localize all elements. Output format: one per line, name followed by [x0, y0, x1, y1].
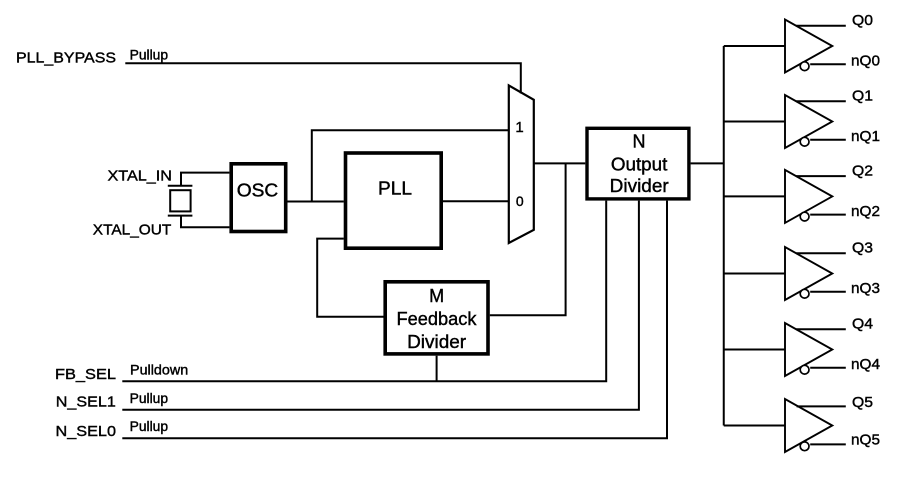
mux MUX1 [509, 85, 534, 243]
svg-text:Pullup: Pullup [130, 419, 169, 434]
svg-text:XTAL_OUT: XTAL_OUT [93, 221, 172, 238]
svg-text:N_SEL1: N_SEL1 [56, 394, 116, 411]
wire XTAL_OUT to crystal and OSC [181, 216, 229, 228]
wire PLL_BYPASS to mux select [125, 63, 521, 93]
inversion bubble nQ1 [800, 137, 809, 146]
op block M Feedback Divider [385, 282, 488, 354]
svg-text:Pulldown: Pulldown [130, 363, 188, 378]
wire mux output to N divider [534, 162, 586, 164]
wire N_SEL1 to N divider [122, 201, 639, 410]
buffer U6 [785, 323, 832, 376]
wire N_SEL0 to N divider [122, 201, 667, 439]
op block PLL U1 [346, 153, 442, 248]
svg-text:nQ5: nQ5 [851, 431, 880, 448]
svg-text:OSC: OSC [237, 181, 279, 201]
wire FB_SEL to N divider [122, 201, 606, 382]
svg-text:nQ4: nQ4 [851, 356, 880, 373]
wire N divider output to bus [691, 162, 724, 164]
svg-text:M: M [429, 286, 444, 306]
wire nQ1 output [810, 139, 846, 141]
wire feedback tap to M divider [490, 163, 566, 315]
wire output distribution bus [723, 46, 725, 426]
inversion bubble nQ4 [800, 365, 809, 374]
svg-text:Pullup: Pullup [130, 48, 169, 63]
svg-text:Q4: Q4 [852, 316, 873, 333]
svg-text:N_SEL0: N_SEL0 [56, 423, 117, 440]
wire M divider to FB_SEL [436, 356, 438, 382]
svg-text:nQ2: nQ2 [851, 203, 880, 220]
svg-text:PLL: PLL [378, 178, 412, 198]
wire bus to buffer U2 input [724, 45, 785, 47]
wire OSC output to mux input 1 [312, 130, 509, 201]
buffer U5 [785, 247, 832, 300]
inversion bubble nQ3 [800, 289, 809, 298]
svg-text:Output: Output [611, 154, 668, 174]
wire bus to buffer U5 input [724, 273, 785, 275]
wire Q3 output [796, 252, 846, 254]
svg-text:XTAL_IN: XTAL_IN [108, 168, 173, 185]
wire nQ0 output [810, 63, 846, 65]
wire Q1 output [796, 100, 846, 102]
wire nQ2 output [810, 214, 846, 216]
wire PLL output to mux input 0 [443, 200, 509, 202]
buffer U7 [785, 399, 832, 452]
svg-text:Pullup: Pullup [130, 391, 169, 406]
wire XTAL_IN to crystal and OSC [181, 173, 229, 187]
buffer U3 [785, 95, 832, 148]
wire bus to buffer U7 input [724, 425, 785, 427]
op block OSC [231, 164, 286, 232]
wire nQ3 output [810, 291, 846, 293]
svg-text:Feedback: Feedback [397, 309, 478, 329]
svg-text:Q5: Q5 [852, 394, 873, 411]
svg-text:PLL_BYPASS: PLL_BYPASS [16, 49, 116, 66]
wire OSC output to PLL [288, 201, 344, 203]
svg-text:Q0: Q0 [852, 12, 873, 29]
wire bus to buffer U4 input [724, 195, 785, 197]
svg-text:nQ1: nQ1 [851, 128, 880, 145]
buffer U4 [785, 170, 832, 223]
wire Q5 output [797, 405, 846, 407]
inversion bubble nQ0 [800, 62, 809, 71]
wire nQ5 output [810, 443, 846, 445]
svg-text:Q3: Q3 [852, 240, 873, 257]
svg-text:FB_SEL: FB_SEL [55, 366, 116, 383]
svg-text:N: N [633, 132, 646, 152]
wire Q4 output [796, 328, 846, 330]
wire nQ4 output [810, 367, 846, 369]
wire Q2 output [796, 175, 846, 177]
svg-text:Divider: Divider [610, 176, 669, 196]
svg-text:Q1: Q1 [852, 88, 873, 105]
svg-text:nQ0: nQ0 [851, 53, 880, 70]
buffer U2 [785, 20, 832, 73]
svg-text:nQ3: nQ3 [851, 280, 880, 297]
svg-text:Q2: Q2 [852, 163, 873, 180]
svg-text:1: 1 [515, 119, 523, 136]
crystal Y1 [168, 186, 193, 216]
op block N Output Divider [587, 128, 689, 199]
svg-text:0: 0 [516, 193, 524, 209]
wire bus to buffer U6 input [724, 349, 785, 351]
wire Q0 output [796, 25, 846, 27]
inversion bubble nQ2 [800, 212, 809, 221]
svg-text:Divider: Divider [407, 332, 466, 352]
inversion bubble nQ5 [800, 442, 809, 451]
wire M divider output to PLL feedback input [317, 239, 383, 317]
wire bus to buffer U3 input [724, 121, 785, 123]
